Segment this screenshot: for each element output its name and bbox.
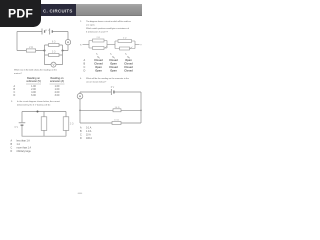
svg-text:Which switch positions would g: Which switch positions would give a resi… <box>86 27 129 30</box>
table 2 <box>97 56 130 59</box>
switch labels S1 S2 S3 <box>96 54 127 56</box>
svg-text:What will be the reading on th: What will be the reading on the ammeter … <box>86 77 130 80</box>
svg-text:Closed: Closed <box>124 65 133 69</box>
svg-text:Open: Open <box>110 62 117 66</box>
node left junction <box>44 50 46 52</box>
battery B2 <box>19 123 26 125</box>
resistor R8 (pair1 top) <box>93 37 105 42</box>
wire right rail <box>63 32 69 51</box>
resistor R12 (middle rung) <box>113 107 121 112</box>
wire parallel frame <box>45 45 63 65</box>
svg-text:2 Ω: 2 Ω <box>70 124 74 126</box>
wire middle rung <box>80 109 141 111</box>
svg-text:6 V: 6 V <box>111 87 115 89</box>
battery B1 (two cells) <box>42 29 52 35</box>
svg-text:infinitely large: infinitely large <box>17 150 32 153</box>
question 4 text <box>80 77 130 84</box>
wire left rail <box>16 32 18 51</box>
svg-text:The diagram shows a circuit in: The diagram shows a circuit in which all… <box>86 20 132 23</box>
header grey banner <box>42 4 142 16</box>
svg-text:Closed: Closed <box>124 62 133 66</box>
wire top (battery loop) <box>17 31 68 33</box>
battery B3 <box>111 89 114 95</box>
svg-text:1 A: 1 A <box>17 143 21 146</box>
wire branch middle <box>43 112 45 137</box>
node Y <box>140 44 142 46</box>
options for question 3 <box>11 140 32 154</box>
resistor R13 (bottom) <box>112 120 121 125</box>
voltmeter V1 <box>51 62 56 67</box>
node rung-left <box>79 110 81 112</box>
question 3 text <box>11 100 60 107</box>
wire outer loop <box>22 112 66 137</box>
wire bottom <box>80 122 141 124</box>
svg-text:Open: Open <box>125 58 132 62</box>
resistor R6 (middle branch) <box>41 117 47 131</box>
wire top <box>80 91 141 93</box>
PDF badge <box>0 0 41 27</box>
node X <box>80 44 82 46</box>
svg-text:100 A: 100 A <box>86 137 92 140</box>
svg-text:ammeter (A): ammeter (A) <box>50 80 64 83</box>
svg-text:2 Ω: 2 Ω <box>96 37 100 39</box>
wire right rail <box>140 92 142 123</box>
svg-text:Closed: Closed <box>109 65 118 69</box>
table 1 <box>26 77 64 83</box>
svg-text:6.00: 6.00 <box>31 94 36 97</box>
resistor R10 (pair2 top) <box>118 38 132 43</box>
svg-text:6 V: 6 V <box>15 127 19 129</box>
svg-text:Closed: Closed <box>94 58 103 62</box>
svg-text:Open: Open <box>95 68 102 72</box>
wire Y lead <box>135 43 140 45</box>
node right junction <box>62 50 64 52</box>
svg-text:meters?: meters? <box>14 72 23 75</box>
svg-text:D: D <box>14 94 16 97</box>
battery label 6 V <box>15 127 19 129</box>
svg-text:6 Ω: 6 Ω <box>52 42 56 44</box>
svg-text:voltmeter (V): voltmeter (V) <box>26 80 41 83</box>
wire left rail <box>79 92 81 123</box>
svg-text:3.00: 3.00 <box>55 94 60 97</box>
wire link <box>107 43 115 45</box>
svg-text:12 V: 12 V <box>45 30 50 32</box>
svg-text:Which row in the table shows t: Which row in the table shows the reading… <box>14 69 58 72</box>
resistor R1 <box>26 47 35 52</box>
svg-text:6 Ω between X and Y?: 6 Ω between X and Y? <box>86 31 109 34</box>
resistor R9 (pair1 bottom) <box>93 47 105 50</box>
svg-text:Closed: Closed <box>109 58 118 62</box>
svg-text:PDF: PDF <box>8 6 33 20</box>
svg-text:Open: Open <box>95 65 102 69</box>
svg-text:circuit shown below?: circuit shown below? <box>86 81 107 84</box>
svg-text:Open: Open <box>110 68 117 72</box>
svg-text:C. CIRCUITS: C. CIRCUITS <box>43 8 73 13</box>
switch S3 <box>130 47 132 49</box>
svg-text:less than 1 A: less than 1 A <box>17 140 31 143</box>
options for question 4 <box>80 127 92 141</box>
svg-text:0.1 A: 0.1 A <box>86 127 92 130</box>
battery label 6 V <box>111 87 115 89</box>
ammeter A1 <box>65 40 70 45</box>
svg-text:Closed: Closed <box>94 62 103 66</box>
node on circuit2 top wire <box>37 111 39 113</box>
wire pair2 frame <box>115 41 135 49</box>
svg-text:Closed: Closed <box>124 68 133 72</box>
ammeter A2 <box>77 93 83 99</box>
wire middle <box>17 50 45 52</box>
svg-text:4 Ω: 4 Ω <box>123 38 127 40</box>
resistor R3 (bottom branch) <box>49 52 60 57</box>
switch S1 <box>105 46 107 48</box>
question 1 text <box>14 69 58 76</box>
svg-text:10 Ω: 10 Ω <box>114 120 119 122</box>
wire pair1 frame <box>89 41 107 49</box>
chapter title text <box>43 8 73 13</box>
question 2 text <box>80 20 132 34</box>
resistor R2 (top branch) <box>49 42 60 47</box>
battery label 1.5 V <box>45 30 50 32</box>
wire X lead <box>83 43 90 45</box>
header title block (navy) <box>36 4 76 16</box>
svg-text:are open.: are open. <box>86 24 96 27</box>
resistor R7 (right branch) <box>63 117 74 131</box>
svg-text:3 Ω: 3 Ω <box>52 52 56 54</box>
svg-text:1.0 A: 1.0 A <box>86 130 92 133</box>
svg-text:10 A: 10 A <box>86 134 91 137</box>
resistor R11 (pair2 bottom) <box>120 47 130 50</box>
node rung-right <box>140 110 142 112</box>
svg-text:2 Ω: 2 Ω <box>29 47 33 49</box>
svg-text:more than 1 A: more than 1 A <box>17 147 32 150</box>
page number <box>78 193 83 194</box>
svg-text:delivered by the 6 V battery w: delivered by the 6 V battery will be <box>17 103 51 106</box>
svg-text:In the circuit diagram shown b: In the circuit diagram shown below, the … <box>17 100 60 103</box>
svg-text:10 Ω: 10 Ω <box>115 107 120 109</box>
svg-text:D: D <box>84 69 86 72</box>
